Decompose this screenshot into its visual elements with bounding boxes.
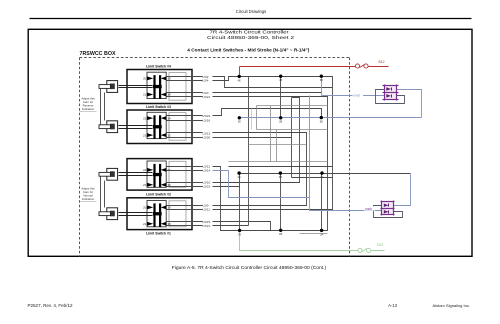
wire box1-3 run: [213, 222, 281, 231]
snubber U1: [383, 85, 399, 101]
svg-text:3B: 3B: [279, 175, 282, 179]
node UA: [320, 229, 323, 232]
wire light row129: [257, 129, 328, 131]
svg-text:snub: snub: [365, 207, 372, 211]
svg-text:2A: 2A: [320, 175, 323, 179]
svg-text:4 Contact Limit Switches - Mid: 4 Contact Limit Switches - Mid Stroke (N…: [187, 48, 310, 53]
svg-text:15: 15: [167, 133, 171, 137]
wire light vert x270: [270, 106, 272, 162]
wire row173: [240, 173, 411, 175]
wire box1-4 run: [213, 225, 249, 227]
label snub1: [353, 93, 364, 98]
wire light vert x256: [256, 106, 258, 130]
svg-text:L5/22: L5/22: [203, 114, 211, 118]
svg-text:7RSWCC BOX: 7RSWCC BOX: [80, 51, 117, 57]
svg-text:22: 22: [143, 116, 147, 120]
wire box2 out stubs: [167, 166, 203, 168]
green breaker symbol N12: [358, 248, 371, 252]
blue vertical mid: [309, 96, 311, 211]
node 3B: [279, 171, 282, 174]
limit switch #2: [119, 159, 193, 197]
svg-text:2E: 2E: [238, 120, 241, 124]
node 7E: [238, 229, 241, 232]
header rule: [30, 18, 472, 20]
svg-text:21: 21: [143, 222, 147, 226]
svg-text:Limit Switch #3: Limit Switch #3: [146, 105, 171, 109]
node 2E: [238, 116, 241, 119]
node 6E: [320, 116, 323, 119]
vertical x291: [291, 98, 293, 178]
cam linkage pair bottom: [101, 177, 105, 212]
node 4B: [279, 75, 282, 78]
svg-text:Indication: Indication: [82, 197, 95, 201]
snubber U1 under-loop wire: [376, 90, 405, 104]
red breaker symbol B12: [355, 64, 368, 68]
svg-text:snub: snub: [353, 93, 360, 97]
node 2B: [279, 116, 282, 119]
red feed wire: [240, 67, 389, 77]
svg-text:22: 22: [143, 168, 147, 172]
wire box1 out stubs: [167, 205, 203, 207]
svg-text:4E: 4E: [238, 78, 241, 82]
svg-text:20: 20: [143, 77, 147, 81]
svg-text:2B: 2B: [279, 120, 282, 124]
svg-text:7R 4-Switch Circuit Controller: 7R 4-Switch Circuit Controller: [210, 29, 290, 34]
svg-text:4B: 4B: [279, 78, 282, 82]
svg-text:14: 14: [167, 116, 171, 120]
wire L5/13 run: [213, 133, 307, 206]
svg-text:Indication: Indication: [82, 107, 95, 111]
wire L5/22 run: [213, 109, 322, 118]
label snub2: [364, 206, 375, 211]
svg-text:Figure A-5. 7R 4-Switch Circui: Figure A-5. 7R 4-Switch Circuit Controll…: [172, 265, 327, 270]
wire light row144: [249, 144, 307, 146]
wire light row105: [257, 105, 328, 107]
wire L5/0 run: [213, 92, 322, 94]
svg-text:A-13: A-13: [388, 303, 398, 308]
vertical x248: [248, 77, 250, 226]
node 3E: [237, 171, 240, 174]
svg-text:P2527, Rev. 4, Feb/12: P2527, Rev. 4, Feb/12: [28, 303, 74, 308]
svg-text:6B: 6B: [320, 78, 323, 82]
limit switch #3: [119, 105, 193, 144]
svg-text:UA: UA: [320, 232, 324, 236]
blue vertical from node 6B: [321, 77, 323, 96]
svg-text:19: 19: [167, 206, 171, 210]
node 6B: [320, 75, 323, 78]
svg-text:21: 21: [143, 93, 147, 97]
annotation Adjust this Cam for Normal Indication: [80, 186, 97, 201]
wire faint vert x251: [251, 109, 253, 130]
blue snub1 wire: [322, 95, 385, 97]
cam 1: [99, 208, 118, 220]
svg-text:6E: 6E: [320, 120, 323, 124]
svg-text:7E: 7E: [238, 232, 241, 236]
svg-text:L5/20: L5/20: [203, 135, 211, 139]
vertical x321 lower: [321, 174, 323, 231]
blue loop2 around snub2: [394, 174, 411, 206]
green return wire: [240, 231, 385, 251]
limit switch #4: [119, 65, 193, 104]
blue wire L5/14 run: [213, 171, 310, 198]
snubber U2: [381, 201, 395, 216]
svg-text:L5/11: L5/11: [203, 208, 211, 212]
wire box3 out stubs: [167, 115, 203, 117]
svg-text:Limit Switch #2: Limit Switch #2: [146, 192, 171, 196]
svg-text:Circuit 48950-369-00, Sheet 2: Circuit 48950-369-00, Sheet 2: [207, 35, 295, 40]
node 2A: [320, 171, 323, 174]
svg-text:L5/21: L5/21: [203, 224, 211, 228]
wire L5/4 run: [213, 77, 333, 210]
svg-text:1B: 1B: [279, 232, 282, 236]
vertical x280 bottom: [280, 174, 282, 231]
svg-text:19: 19: [167, 77, 171, 81]
svg-text:Circuit Drawings: Circuit Drawings: [236, 9, 267, 14]
bottom row join: [240, 230, 322, 232]
svg-text:L5/23: L5/23: [203, 184, 211, 188]
svg-text:L5/14: L5/14: [203, 168, 211, 172]
svg-text:B12: B12: [379, 60, 385, 64]
wire light vert x277: [276, 130, 278, 162]
wire x291 bottom link: [292, 177, 333, 179]
limit switch #1: [119, 198, 193, 236]
svg-text:3E: 3E: [238, 175, 241, 179]
blue snub2 wire: [310, 210, 382, 212]
svg-text:L5/21: L5/21: [203, 95, 211, 99]
wire box2-4 run: [213, 186, 240, 188]
dashed enclosure 7RSWCC box: [80, 58, 350, 257]
wire L5/20 run: [213, 137, 292, 139]
cam 3: [99, 121, 118, 133]
cam linkage pair top: [101, 89, 105, 125]
wire light row161: [229, 161, 328, 163]
vertical x280 top: [280, 77, 282, 118]
svg-text:Limit Switch #4: Limit Switch #4: [146, 65, 171, 69]
figure border frame: [28, 29, 472, 256]
cam 4: [99, 81, 118, 93]
wire L5/2 run: [213, 77, 333, 88]
node 4E: [238, 75, 241, 78]
svg-text:N12: N12: [377, 243, 383, 247]
blue loop1 bottom wire: [240, 117, 422, 119]
svg-text:23: 23: [143, 133, 147, 137]
wire box4 out stubs: [167, 76, 203, 78]
snubber U2 under-loop wire: [374, 206, 403, 218]
svg-text:23: 23: [143, 183, 147, 187]
cam 2: [99, 168, 118, 180]
svg-text:L5/16: L5/16: [203, 119, 211, 123]
wire L5/21 run: [213, 97, 328, 231]
svg-text:Alstom Signaling Inc.: Alstom Signaling Inc.: [433, 303, 471, 308]
annotation Adjust this Cam for Reverse Indication: [80, 96, 97, 111]
light grey wires: [229, 106, 328, 234]
blue loop1 around snub1: [397, 90, 422, 118]
vertical x239 lower: [239, 174, 241, 231]
svg-text:Limit Switch #1: Limit Switch #1: [146, 232, 171, 236]
svg-text:20: 20: [143, 206, 147, 210]
blue wires: [213, 77, 422, 211]
wire x299 link: [213, 98, 300, 183]
wire row166 long: [229, 166, 333, 168]
wire box2-1 run: [213, 167, 240, 231]
node 1B: [279, 229, 282, 232]
svg-text:L5/4: L5/4: [203, 79, 209, 83]
wire light row233: [300, 233, 328, 235]
